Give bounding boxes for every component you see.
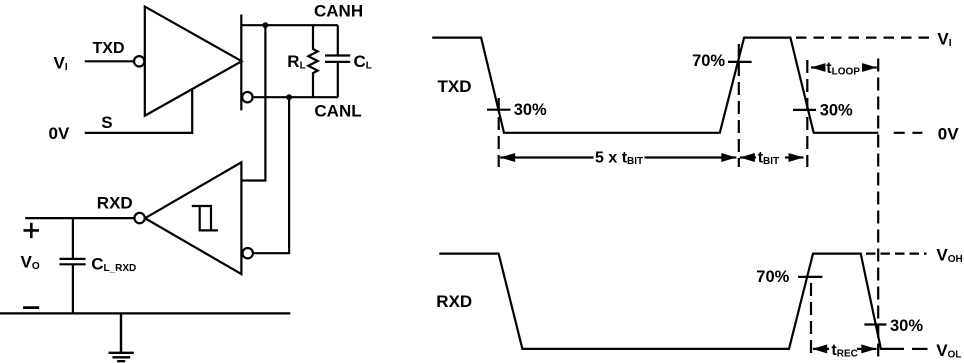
svg-text:CL: CL xyxy=(354,52,372,72)
svg-text:30%: 30% xyxy=(820,101,853,119)
svg-text:VI: VI xyxy=(54,54,68,74)
plus terminal xyxy=(24,223,40,238)
svg-text:30%: 30% xyxy=(890,317,923,335)
svg-text:70%: 70% xyxy=(692,52,725,70)
svg-text:70%: 70% xyxy=(756,268,789,286)
knockout 5xtBIT xyxy=(594,147,645,167)
ground symbol xyxy=(109,313,134,361)
receiver output bubble xyxy=(134,213,144,223)
arrow tLOOP line xyxy=(811,66,877,68)
tick 30% second fall xyxy=(793,109,816,111)
node CANH junction xyxy=(263,22,269,28)
knockout tBIT xyxy=(756,147,785,167)
knockout tLOOP xyxy=(826,58,863,77)
svg-text:RXD: RXD xyxy=(97,194,133,213)
tick 30% first fall xyxy=(487,109,511,111)
svg-text:0V: 0V xyxy=(938,124,959,143)
driver input bubble xyxy=(134,56,144,66)
svg-text:VI: VI xyxy=(937,30,951,50)
tick 70% rise xyxy=(728,61,752,63)
wire CANH xyxy=(241,24,337,26)
svg-text:VOH: VOH xyxy=(936,246,962,266)
wire CANL xyxy=(253,96,338,98)
wire CANH to receiver input xyxy=(241,25,265,180)
resistor RL xyxy=(308,25,317,97)
dashed marker loop end long xyxy=(877,59,879,358)
svg-text:RL: RL xyxy=(287,52,305,72)
knockout tREC xyxy=(829,340,857,358)
wire VI to TXD input xyxy=(85,60,134,62)
arrowhead tREC left xyxy=(812,344,827,353)
svg-text:RXD: RXD xyxy=(436,292,472,311)
svg-text:0V: 0V xyxy=(49,124,70,143)
RXD waveform xyxy=(439,254,904,349)
dashed marker second 30% xyxy=(806,60,808,167)
TXD waveform xyxy=(432,38,878,133)
minus terminal xyxy=(23,306,39,309)
wire RXD xyxy=(25,217,134,219)
svg-text:TXD: TXD xyxy=(93,40,125,57)
arrow 5xtBIT line xyxy=(500,156,736,158)
driver output bar xyxy=(240,15,242,111)
ground rail wire xyxy=(0,312,290,314)
svg-text:30%: 30% xyxy=(514,101,547,119)
arrowhead 5xtBIT left xyxy=(500,153,515,162)
VOH level dashed xyxy=(866,253,927,255)
tick 30% RXD fall xyxy=(864,323,886,325)
svg-text:CANL: CANL xyxy=(314,101,361,120)
receiver inverting input bubble xyxy=(243,248,253,258)
arrow tBIT line xyxy=(740,156,804,158)
driver buffer U1 xyxy=(145,7,242,116)
svg-text:VOL: VOL xyxy=(936,341,961,361)
arrowhead tLOOP left xyxy=(811,63,826,72)
svg-text:TXD: TXD xyxy=(438,77,472,96)
hysteresis symbol xyxy=(192,206,218,230)
arrowhead tBIT left xyxy=(740,153,755,162)
receiver comparator U2 xyxy=(145,162,241,274)
capacitor CL_RXD xyxy=(60,218,86,313)
VI level dashed xyxy=(796,36,931,38)
arrowhead 5xtBIT right xyxy=(721,153,736,162)
svg-text:VO: VO xyxy=(21,253,40,273)
wire 0V to S pin xyxy=(85,89,192,133)
dashed marker 70% rise xyxy=(738,44,740,167)
0V level dashed xyxy=(894,132,923,134)
tick 70% RXD rise xyxy=(798,276,822,278)
dashed marker first 30% xyxy=(498,98,500,167)
svg-text:CL_RXD: CL_RXD xyxy=(91,254,136,274)
wire CANL to receiver input xyxy=(253,97,289,253)
arrowhead tREC right xyxy=(861,344,876,353)
driver CANL bubble xyxy=(242,92,252,102)
dashed marker RXD 70% xyxy=(810,283,812,358)
arrowhead tLOOP right xyxy=(862,63,877,72)
arrowhead tBIT right xyxy=(789,153,804,162)
arrow tREC line xyxy=(813,348,877,350)
svg-text:CANH: CANH xyxy=(314,2,363,21)
svg-text:S: S xyxy=(101,113,112,132)
capacitor CL xyxy=(325,25,350,97)
node CANL junction xyxy=(286,94,292,100)
VOL level dashed xyxy=(912,348,928,350)
